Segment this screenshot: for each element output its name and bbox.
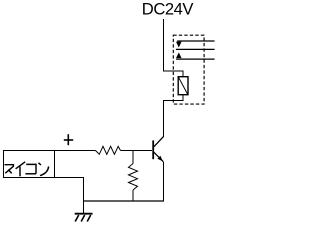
transistor Q1 — [153, 136, 163, 161]
relay coil K1 — [178, 77, 188, 95]
microcontroller box — [4, 151, 55, 178]
connector arrow down — [176, 42, 182, 48]
ground — [75, 214, 93, 222]
wire bottom rail — [83, 200, 164, 202]
wire emitter down — [163, 162, 165, 202]
relay contact common line — [176, 48, 215, 50]
relay contact line 1 — [177, 40, 214, 42]
relay dashed enclosure — [173, 35, 204, 104]
resistor R1 — [96, 146, 121, 154]
resistor R2 (vertical) with stems — [129, 151, 138, 202]
wire box bottom to ground — [55, 178, 84, 214]
wire R1 to base — [121, 150, 153, 152]
wire box to R1 — [55, 150, 96, 152]
plus label — [64, 134, 73, 145]
text マイコン (hand drawn) — [5, 162, 49, 177]
svg-text:DC24V: DC24V — [142, 0, 194, 19]
wire coil bottom to collector — [164, 95, 184, 137]
wire from DC24V down, right, to coil top — [164, 19, 184, 77]
relay contact line 2 — [176, 58, 215, 60]
connector arrow up — [176, 53, 182, 59]
